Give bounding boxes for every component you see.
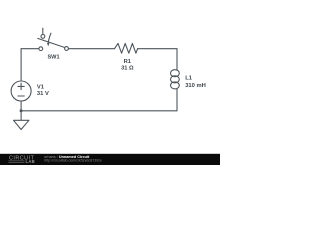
svg-text:R1: R1	[124, 59, 132, 65]
svg-text:L1: L1	[185, 75, 193, 81]
wire R1 to top-right corner	[138, 48, 177, 50]
junction dot	[20, 109, 23, 112]
wire switch to R1	[68, 48, 114, 50]
wire bottom horizontal	[21, 110, 177, 112]
wire right vertical top	[176, 49, 178, 70]
wire V1 bottom	[20, 101, 22, 111]
inductor L1	[171, 70, 180, 89]
svg-text:310 mH: 310 mH	[185, 83, 206, 89]
svg-text:LAB: LAB	[26, 159, 36, 164]
svg-text:31 V: 31 V	[37, 91, 49, 97]
wire V1 top vertical	[20, 49, 22, 81]
resistor R1	[115, 43, 138, 53]
svg-text:SW1: SW1	[47, 55, 59, 61]
footer watermark bar	[0, 154, 220, 165]
ground	[14, 120, 29, 129]
wire ground stub	[20, 111, 22, 121]
svg-text:31 Ω: 31 Ω	[121, 65, 134, 71]
switch SW1	[38, 28, 69, 50]
wire top-left horizontal	[21, 48, 39, 50]
svg-text:http://circuitlab.com/c/k5zvdc: http://circuitlab.com/c/k5zvdc8739zv	[44, 159, 102, 163]
voltage source V1	[11, 81, 31, 101]
svg-text:V1: V1	[37, 85, 45, 91]
wire right vertical bottom	[176, 89, 178, 111]
